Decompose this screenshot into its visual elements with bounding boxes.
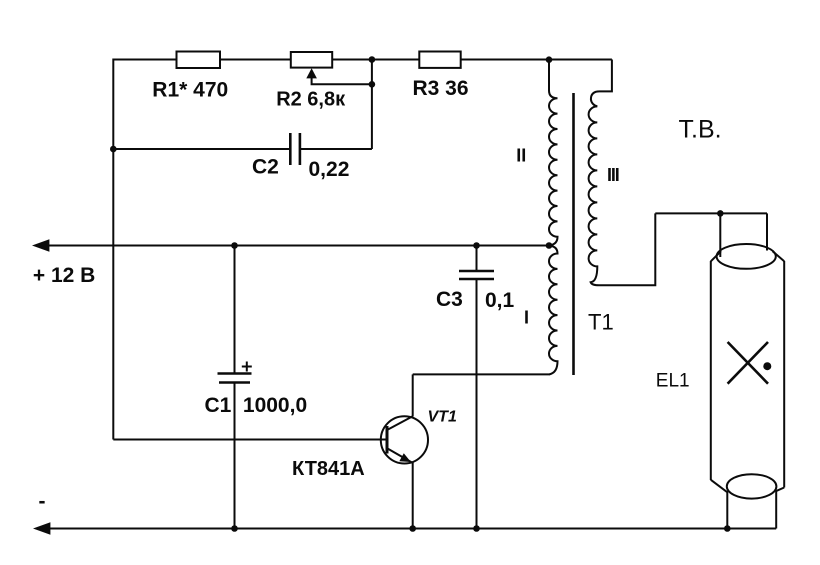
lamp EL1 tube left wall	[710, 261, 712, 480]
lamp EL1 top left chamfer	[711, 251, 721, 261]
lamp EL1 X mark	[728, 342, 768, 384]
svg-text:III: III	[607, 165, 619, 185]
capacitor C3 top lead	[476, 246, 478, 272]
capacitor C2 plates	[289, 133, 292, 165]
transformer T1 winding III	[589, 60, 656, 286]
wire top rail from left corner through R1 R2 R3 to transformer	[113, 59, 612, 61]
svg-text:C2: C2	[252, 155, 279, 178]
node lamp top pin	[717, 210, 724, 217]
lamp EL1 tube right wall	[783, 261, 785, 488]
resistor R3	[419, 52, 460, 68]
lamp EL1 bottom end ellipse	[727, 474, 777, 498]
capacitor C1 plates	[218, 372, 252, 375]
node emitter on rail	[409, 525, 416, 532]
wire +12V rail	[38, 245, 549, 247]
wire bottom rail	[39, 528, 776, 530]
svg-text:R3 36: R3 36	[413, 77, 469, 100]
capacitor C3 plates	[459, 270, 494, 273]
wire R2 wiper horizontal	[312, 78, 372, 85]
wire lamp top feed	[655, 212, 767, 214]
transistor collector diagonal	[388, 416, 413, 430]
wire base from left vertical to transistor base	[113, 439, 386, 441]
node C3 top on +12V rail	[473, 242, 480, 249]
arrowhead +12V rail	[32, 239, 49, 252]
svg-text:C1: C1	[205, 394, 232, 417]
svg-text:+ 12 В: + 12 В	[33, 264, 95, 287]
C1 plus mark	[242, 366, 252, 368]
transformer T1 winding II	[549, 60, 558, 246]
svg-text:R2 6,8к: R2 6,8к	[276, 88, 346, 110]
svg-text:0,1: 0,1	[485, 289, 515, 312]
svg-text:EL1: EL1	[656, 371, 690, 392]
node lamp bottom pin on rail	[724, 525, 731, 532]
node transformer top	[546, 56, 553, 63]
wire vertical x=371.9 from top rail to C2 row	[371, 60, 373, 150]
node C3 bottom on rail	[473, 525, 480, 532]
svg-text:R1* 470: R1* 470	[152, 79, 228, 102]
arrowhead bottom rail	[33, 522, 50, 535]
transistor emitter vertical	[412, 462, 414, 529]
svg-text:1000,0: 1000,0	[243, 394, 307, 417]
arrowhead R2 wiper	[306, 68, 317, 78]
svg-text:C3: C3	[436, 288, 463, 311]
lamp EL1 bottom right pin	[775, 490, 777, 529]
wire left vertical from top corner down to base wire	[112, 59, 114, 440]
lamp EL1 top left pin	[719, 213, 721, 257]
wire C2 row right segment	[300, 148, 372, 150]
transistor collector vertical	[412, 374, 414, 416]
transformer T1 core	[572, 93, 575, 375]
resistor R1	[177, 52, 221, 69]
svg-text:Т.В.: Т.В.	[679, 115, 722, 143]
node wiper junction	[369, 81, 376, 88]
node C1 top on +12V rail	[231, 242, 238, 249]
node C2 row left	[110, 146, 117, 153]
svg-text:-: -	[39, 490, 46, 513]
capacitor C1 top lead	[234, 246, 236, 374]
svg-text:II: II	[516, 146, 526, 166]
capacitor C1 bottom lead	[234, 383, 236, 529]
lamp EL1 top right chamfer	[773, 251, 785, 261]
svg-text:КТ841А: КТ841А	[292, 458, 365, 480]
svg-text:0,22: 0,22	[309, 158, 350, 181]
lamp EL1 top end ellipse	[717, 244, 776, 269]
svg-text:VT1: VT1	[428, 409, 457, 426]
node winding I/II junction	[546, 242, 553, 249]
transformer T1 winding I	[549, 246, 558, 375]
node C1 bottom on rail	[231, 525, 238, 532]
resistor R2 (trimmer body)	[291, 52, 332, 68]
lamp EL1 bottom left pin	[726, 491, 728, 529]
lamp EL1 top right pin	[766, 213, 768, 250]
lamp EL1 gas dot	[763, 362, 771, 370]
svg-text:T1: T1	[588, 310, 614, 335]
wire C2 row left segment	[113, 148, 290, 150]
transistor Q VT1 circle	[381, 416, 428, 463]
svg-text:I: I	[524, 308, 529, 328]
lamp EL1 bottom left chamfer	[711, 480, 727, 492]
lamp EL1 bottom right chamfer	[776, 488, 784, 491]
transistor base bar	[386, 426, 389, 454]
node R2 top right	[369, 56, 376, 63]
capacitor C3 bottom lead	[476, 279, 478, 529]
transistor emitter diagonal	[388, 449, 412, 463]
transistor emitter arrowhead	[399, 453, 411, 462]
wire collector horizontal to winding I bottom	[413, 373, 550, 375]
